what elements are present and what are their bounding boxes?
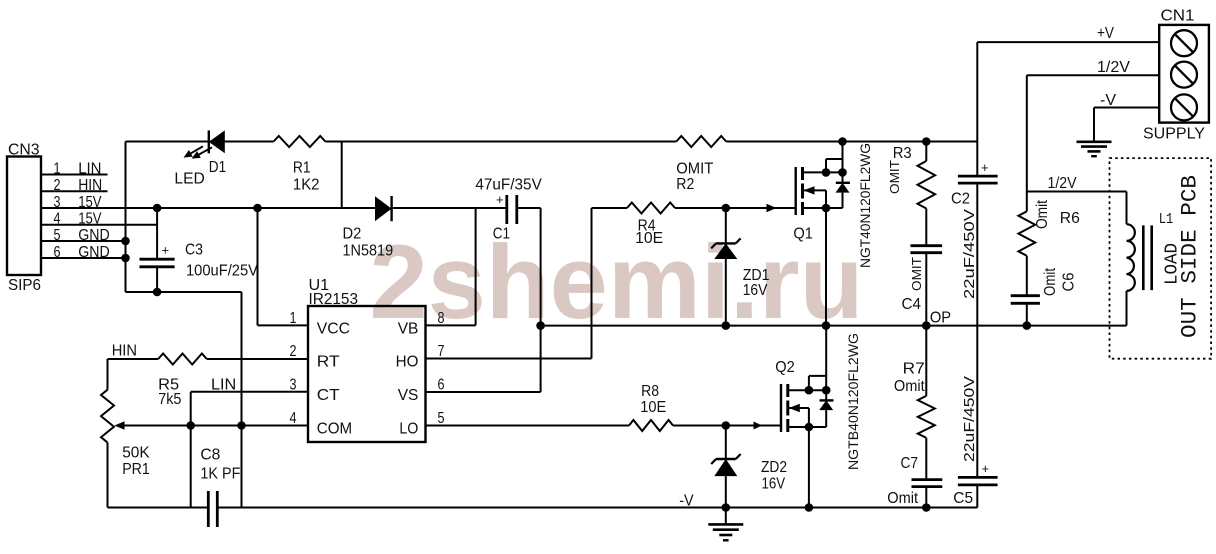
wire VB vertical to D2 cathode (475, 208, 477, 325)
svg-text:6: 6 (438, 377, 445, 394)
svg-text:PR1: PR1 (122, 461, 150, 478)
svg-text:+V: +V (1097, 25, 1115, 42)
wire Q2 drain vertical (825, 326, 827, 401)
svg-text:C8: C8 (200, 446, 220, 463)
CN1 terminal screw 2 (1171, 62, 1197, 88)
potentiometer PR1 wiper arrow (115, 421, 125, 430)
wire gate row to R4 (592, 207, 628, 209)
svg-text:C1: C1 (493, 226, 510, 243)
wire CN3 pin2 HIN stub (41, 190, 108, 192)
wire U1 pin8 VB stub (426, 324, 476, 326)
svg-text:L1: L1 (1159, 211, 1174, 228)
junction ZD2 -V rail (722, 503, 731, 512)
wire 1/2V row to load (1027, 191, 1127, 193)
svg-text:100uF/25V: 100uF/25V (186, 263, 259, 280)
junction Q2 source -V rail (805, 503, 814, 512)
capacitor C3 (140, 208, 175, 292)
wire HIN row left (108, 358, 159, 360)
wire +V vertical (976, 42, 978, 176)
svg-text:ZD2: ZD2 (761, 459, 787, 476)
wire R6 to C6 (1026, 256, 1028, 296)
svg-text:C5: C5 (953, 490, 973, 507)
svg-text:Omit: Omit (887, 490, 918, 507)
svg-text:-V: -V (679, 493, 694, 510)
wire R3 to C4 (925, 209, 927, 246)
wire 15V rail (41, 207, 376, 209)
resistor R1 (274, 136, 326, 147)
svg-text:CN1: CN1 (1161, 8, 1195, 25)
svg-text:OMIT: OMIT (909, 257, 924, 291)
wire load left vertical top (1126, 192, 1128, 225)
junction C7 -V rail (922, 503, 931, 512)
svg-text:COM: COM (317, 421, 352, 438)
svg-text:D2: D2 (343, 226, 362, 243)
potentiometer PR1 element (101, 390, 114, 443)
svg-text:C6: C6 (1061, 273, 1078, 292)
wire top rail right segment (726, 141, 977, 143)
junction C4 OP rail (922, 321, 931, 330)
diode D2 1N5819 (375, 196, 392, 221)
svg-text:10E: 10E (640, 399, 666, 416)
svg-text:8: 8 (438, 310, 445, 327)
wire CN3 pin1 LIN stub (41, 174, 108, 176)
capacitor C4 (910, 246, 942, 326)
junction Q1 source OP rail (822, 321, 831, 330)
zener diode ZD2 (711, 426, 740, 508)
junction Q2 source (805, 423, 814, 432)
wire GND vertical left (125, 142, 127, 293)
svg-text:7: 7 (438, 343, 445, 360)
junction R3 top rail (922, 137, 931, 146)
svg-text:OUT SIDE PCB: OUT SIDE PCB (1178, 175, 1203, 338)
svg-text:VCC: VCC (317, 320, 350, 337)
junction VCC branch (253, 204, 262, 213)
resistor R8 (629, 420, 673, 431)
svg-text:VS: VS (398, 387, 419, 404)
wire R8 to Q2 gate (673, 425, 781, 427)
svg-text:4: 4 (290, 410, 297, 427)
svg-text:5: 5 (438, 410, 445, 427)
ground CN1 (0, 0, 1, 1)
wire R3 top (925, 142, 927, 162)
svg-text:LED: LED (174, 171, 204, 188)
wire R4 to Q1 gate (675, 207, 796, 209)
wire GND bottom rail (126, 291, 242, 293)
wire +V to CN1 (977, 41, 1159, 43)
svg-text:16V: 16V (762, 475, 786, 492)
svg-text:1K PF: 1K PF (200, 465, 240, 482)
svg-text:C2: C2 (951, 191, 970, 208)
svg-text:+: + (982, 461, 990, 476)
wire COM down to -V rail (241, 426, 243, 508)
junction C3 bottom (153, 288, 162, 297)
junction Q1 source (822, 204, 831, 213)
wire CN3 pin6 GND stub (41, 257, 126, 259)
op-amp U1 IR2153 body (308, 306, 426, 442)
junction VS-OP rail (536, 321, 545, 330)
svg-text:Omit: Omit (1042, 267, 1059, 296)
junction pin6-GND vertical (121, 254, 130, 263)
svg-text:16V: 16V (743, 282, 768, 299)
wire R7 top (925, 326, 927, 396)
svg-text:1K2: 1K2 (293, 177, 320, 194)
capacitor C5 (958, 477, 998, 507)
svg-text:IR2153: IR2153 (309, 291, 359, 308)
zener diode ZD1 (711, 208, 740, 326)
transistor Q1 (796, 159, 843, 326)
svg-text:C4: C4 (902, 296, 922, 313)
wire load left vertical bottom (1126, 291, 1128, 326)
wire PR1 bottom to -V rail (107, 443, 109, 508)
junction Q1 drain tap left (822, 168, 831, 177)
svg-text:SIP6: SIP6 (8, 277, 41, 294)
gate arrow Q2 (754, 422, 763, 430)
capacitor C6 (1011, 296, 1040, 326)
wire -V to CN1 (1094, 107, 1159, 109)
svg-text:R6: R6 (1060, 210, 1080, 227)
svg-text:RT: RT (317, 354, 340, 371)
svg-text:C3: C3 (185, 242, 203, 259)
wire U1 pin1 VCC stub (258, 324, 309, 326)
resistor R7 (918, 396, 935, 438)
wire R5 to U1 pin2 RT (207, 358, 308, 360)
svg-text:22uF/450V: 22uF/450V (961, 376, 978, 462)
svg-text:22uF/450V: 22uF/450V (961, 209, 978, 299)
svg-text:1/2V: 1/2V (1048, 175, 1078, 192)
capacitor C7 (912, 480, 943, 508)
junction Q2 drain tap left (805, 386, 814, 395)
svg-text:NGT40N120FL2WG: NGT40N120FL2WG (858, 143, 873, 268)
resistor R5 (158, 354, 207, 365)
capacitor C8 (208, 491, 217, 527)
wire HIN down to PR1 (107, 359, 109, 390)
wire LIN vertical (190, 392, 192, 508)
diode Q2 body diode (819, 400, 833, 427)
svg-text:C7: C7 (901, 455, 919, 472)
svg-text:Q2: Q2 (775, 359, 795, 376)
svg-text:R2: R2 (676, 176, 694, 193)
wire U1 pin7 HO stub (426, 358, 592, 360)
svg-text:VB: VB (398, 320, 419, 337)
svg-text:R8: R8 (641, 383, 659, 400)
wire 1/2V vertical (1026, 75, 1028, 211)
wire HO vertical to gate row (591, 208, 593, 359)
connector CN3 body (7, 157, 41, 276)
resistor R3 (918, 161, 936, 209)
connector CN1 body (1159, 25, 1209, 123)
svg-text:Omit: Omit (894, 378, 925, 395)
junction ZD1 OP rail (722, 321, 731, 330)
CN1 terminal screw 1 (1171, 30, 1197, 56)
svg-text:CT: CT (317, 387, 340, 404)
junction ZD1 gate row (722, 204, 731, 213)
wire U1 pin6 VS stub (426, 391, 541, 393)
svg-text:+: + (162, 243, 170, 258)
svg-text:CN3: CN3 (8, 142, 40, 159)
svg-text:50K: 50K (122, 444, 150, 461)
svg-text:7k5: 7k5 (158, 391, 181, 408)
wire VS vertical to C1 (540, 208, 542, 392)
wire -V down to ground (1093, 108, 1095, 142)
wire GND drop to COM (241, 292, 243, 426)
wire Q1 drain vertical (842, 142, 844, 183)
svg-text:10E: 10E (635, 230, 663, 247)
svg-text:OP: OP (930, 310, 951, 327)
svg-text:D1: D1 (209, 159, 226, 176)
wire OP mid rail (541, 325, 1127, 327)
LED D1 (184, 130, 225, 158)
junction LIN-COM (186, 421, 195, 430)
wire R7 to C7 (925, 438, 927, 480)
junction GND-COM (237, 421, 246, 430)
capacitor C1 bootstrap (507, 195, 517, 224)
ground (725, 508, 727, 525)
svg-text:HIN: HIN (112, 343, 137, 360)
svg-text:Omit: Omit (1034, 199, 1051, 229)
CN1 terminal screw 3 (1171, 94, 1197, 120)
svg-text:1: 1 (290, 310, 297, 327)
svg-text:+: + (981, 160, 989, 175)
svg-text:LO: LO (399, 421, 418, 438)
junction pin5-GND vertical (121, 237, 130, 246)
svg-text:1/2V: 1/2V (1097, 59, 1131, 76)
wire -V rail main (217, 507, 977, 509)
wire top rail left segment (126, 141, 274, 143)
wire COM row wiper to U1 pin4 (124, 425, 308, 427)
wire -V rail left of C8 (108, 507, 209, 509)
resistor R6 (1018, 211, 1035, 255)
junction C6 OP rail (1023, 321, 1032, 330)
svg-text:HO: HO (396, 354, 419, 371)
svg-text:R1: R1 (293, 160, 311, 177)
junction Q1 drain tap right (838, 168, 847, 177)
wire VCC vertical from 15V rail (257, 208, 259, 325)
resistor R4 (627, 203, 675, 214)
inductor L1 (1127, 224, 1135, 291)
wire C1 right segment (517, 207, 541, 209)
svg-text:1N5819: 1N5819 (343, 243, 394, 260)
svg-text:R7: R7 (903, 361, 925, 378)
wire CT row to U1 pin3 (191, 391, 308, 393)
inductor L1 core lines (1143, 225, 1151, 290)
junction ZD2 gate row (722, 421, 731, 430)
wire top-rail to 15V-rail vertical (341, 142, 343, 209)
svg-text:-V: -V (1100, 92, 1117, 109)
resistor R2 (676, 136, 726, 147)
svg-text:OMIT: OMIT (887, 160, 902, 194)
transistor Q2 (781, 376, 826, 508)
capacitor C2 (958, 176, 998, 477)
wire 1/2V to CN1 (1027, 74, 1159, 76)
svg-text:2: 2 (290, 343, 297, 360)
svg-text:NGTB40N120FL2WG: NGTB40N120FL2WG (846, 333, 861, 470)
junction Q2 drain tap right (822, 386, 831, 395)
junction C3 top (153, 204, 162, 213)
diode Q1 body diode (836, 183, 850, 208)
wire top rail middle segment (325, 141, 676, 143)
svg-text:SUPPLY: SUPPLY (1143, 126, 1205, 143)
gate arrow Q1 (767, 204, 777, 212)
wire CN3 pin5 GND stub (41, 240, 126, 242)
wire U1 pin5 LO stub (426, 425, 630, 427)
junction Q1 top rail (838, 137, 847, 146)
wire CN3 pin4 15V stub to C3 (41, 224, 157, 226)
svg-text:47uF/35V: 47uF/35V (475, 177, 542, 194)
svg-text:+: + (496, 192, 504, 207)
dashed box OUT SIDE PCB (1110, 158, 1212, 359)
svg-text:R3: R3 (893, 145, 912, 162)
svg-text:Q1: Q1 (793, 226, 813, 243)
wire D2 cathode to C1 (392, 207, 507, 209)
